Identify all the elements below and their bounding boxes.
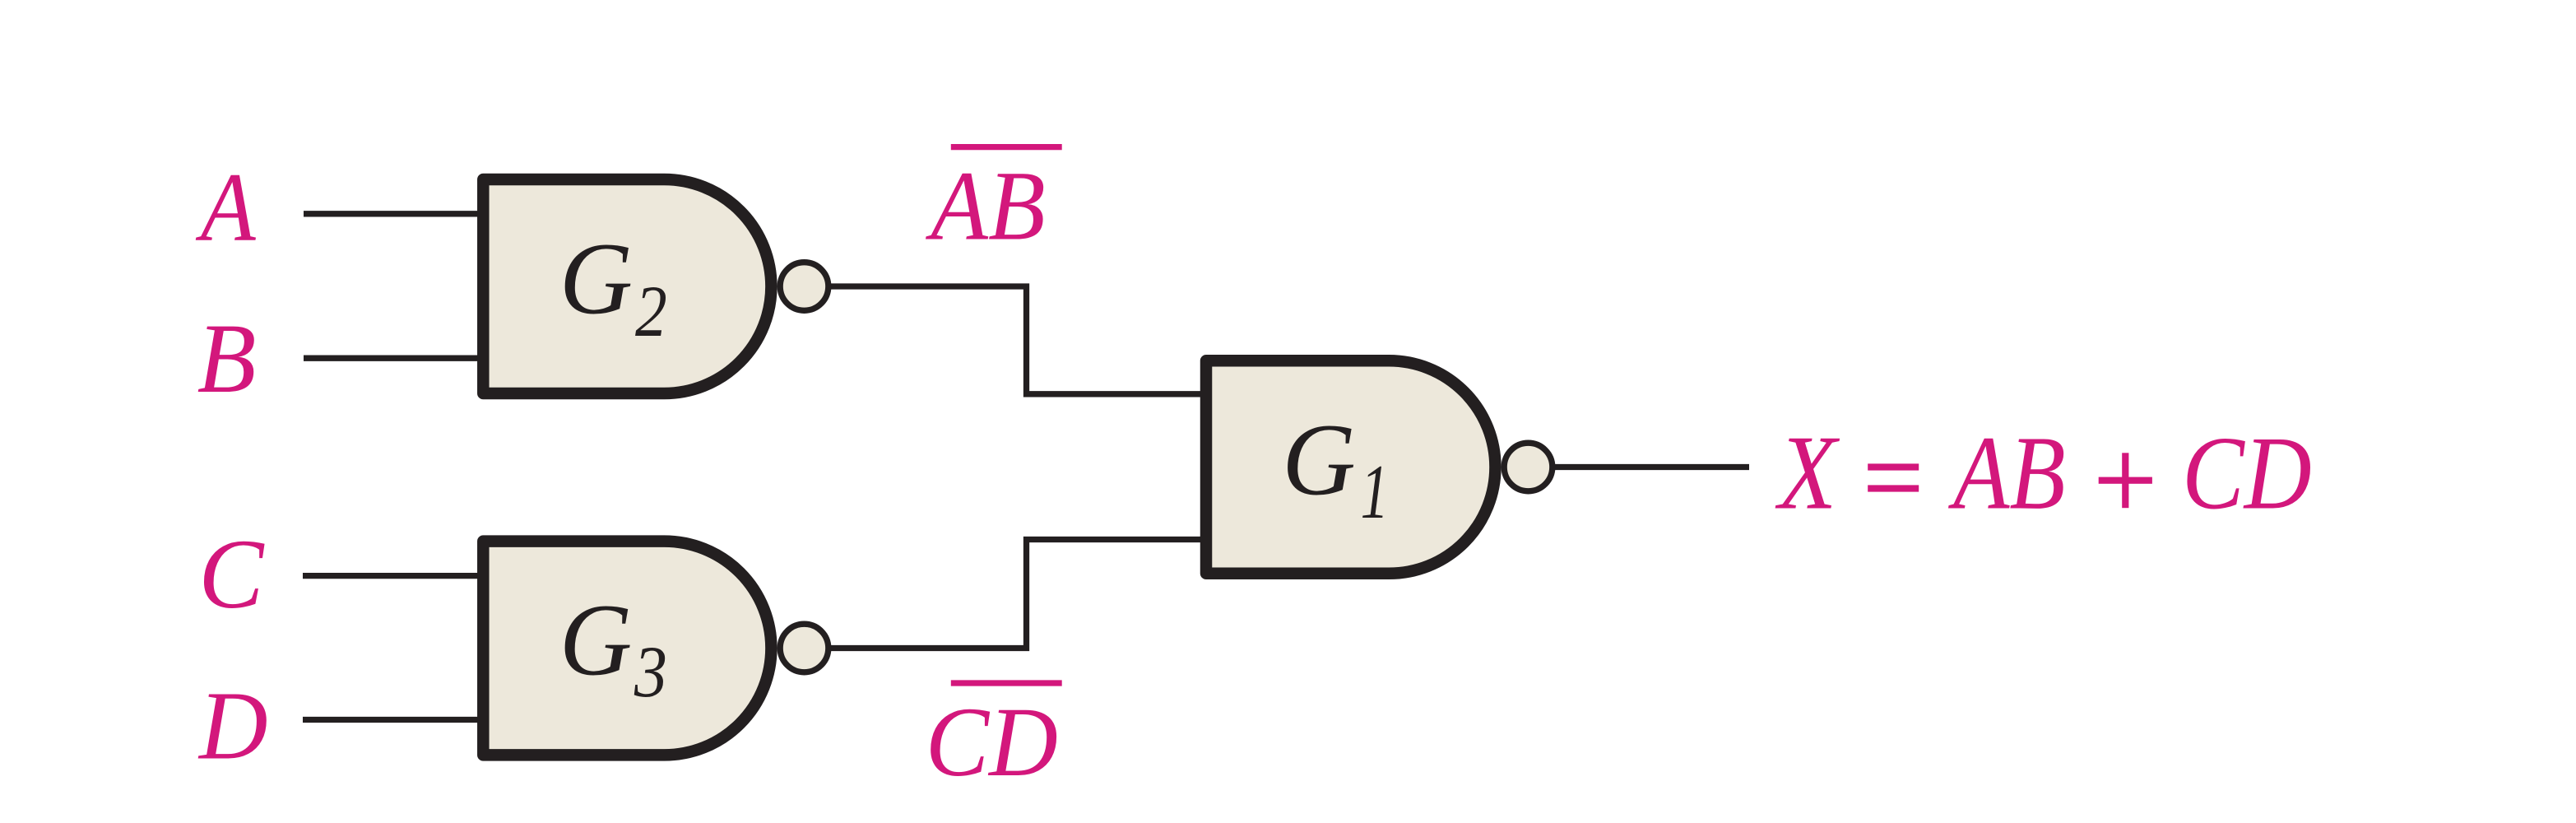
svg-text:2: 2	[635, 272, 667, 352]
wire B input	[304, 356, 485, 361]
svg-text:A: A	[195, 153, 256, 263]
node AB-bar overline	[951, 144, 1062, 150]
nand gate G2 output bubble	[780, 263, 828, 311]
nand gate G3 body	[483, 542, 771, 756]
output equation equals sign	[1868, 463, 1919, 491]
nand gate G2 label	[559, 221, 667, 352]
svg-text:AB: AB	[926, 151, 1046, 262]
svg-text:D: D	[197, 672, 268, 780]
wire G3 output to G1 bottom input	[829, 540, 1203, 649]
wire D input	[303, 717, 485, 723]
svg-text:G: G	[1282, 402, 1356, 516]
wire G1 output	[1553, 464, 1749, 470]
nand gate G1 label	[1282, 402, 1389, 534]
svg-text:X: X	[1775, 413, 1840, 532]
svg-text:B: B	[197, 303, 257, 413]
svg-text:G: G	[559, 221, 633, 336]
wire C input	[303, 573, 485, 579]
svg-text:3: 3	[634, 632, 667, 713]
svg-text:C: C	[198, 518, 264, 629]
nand gate G1 body	[1206, 360, 1495, 574]
nand gate G1 output bubble	[1504, 443, 1553, 491]
nand gate G2 body	[483, 179, 771, 393]
wire G2 output to G1 top input	[829, 286, 1203, 394]
svg-text:CD: CD	[2182, 416, 2312, 532]
svg-text:G: G	[559, 584, 632, 697]
svg-text:1: 1	[1361, 449, 1389, 535]
svg-text:AB: AB	[1948, 415, 2066, 532]
wire A input	[304, 211, 485, 216]
nand gate G3 output bubble	[780, 624, 828, 672]
svg-text:CD: CD	[926, 687, 1058, 797]
nand gate G3 label	[559, 584, 667, 713]
node CD-bar overline	[951, 680, 1062, 686]
output equation plus sign	[2099, 453, 2152, 508]
